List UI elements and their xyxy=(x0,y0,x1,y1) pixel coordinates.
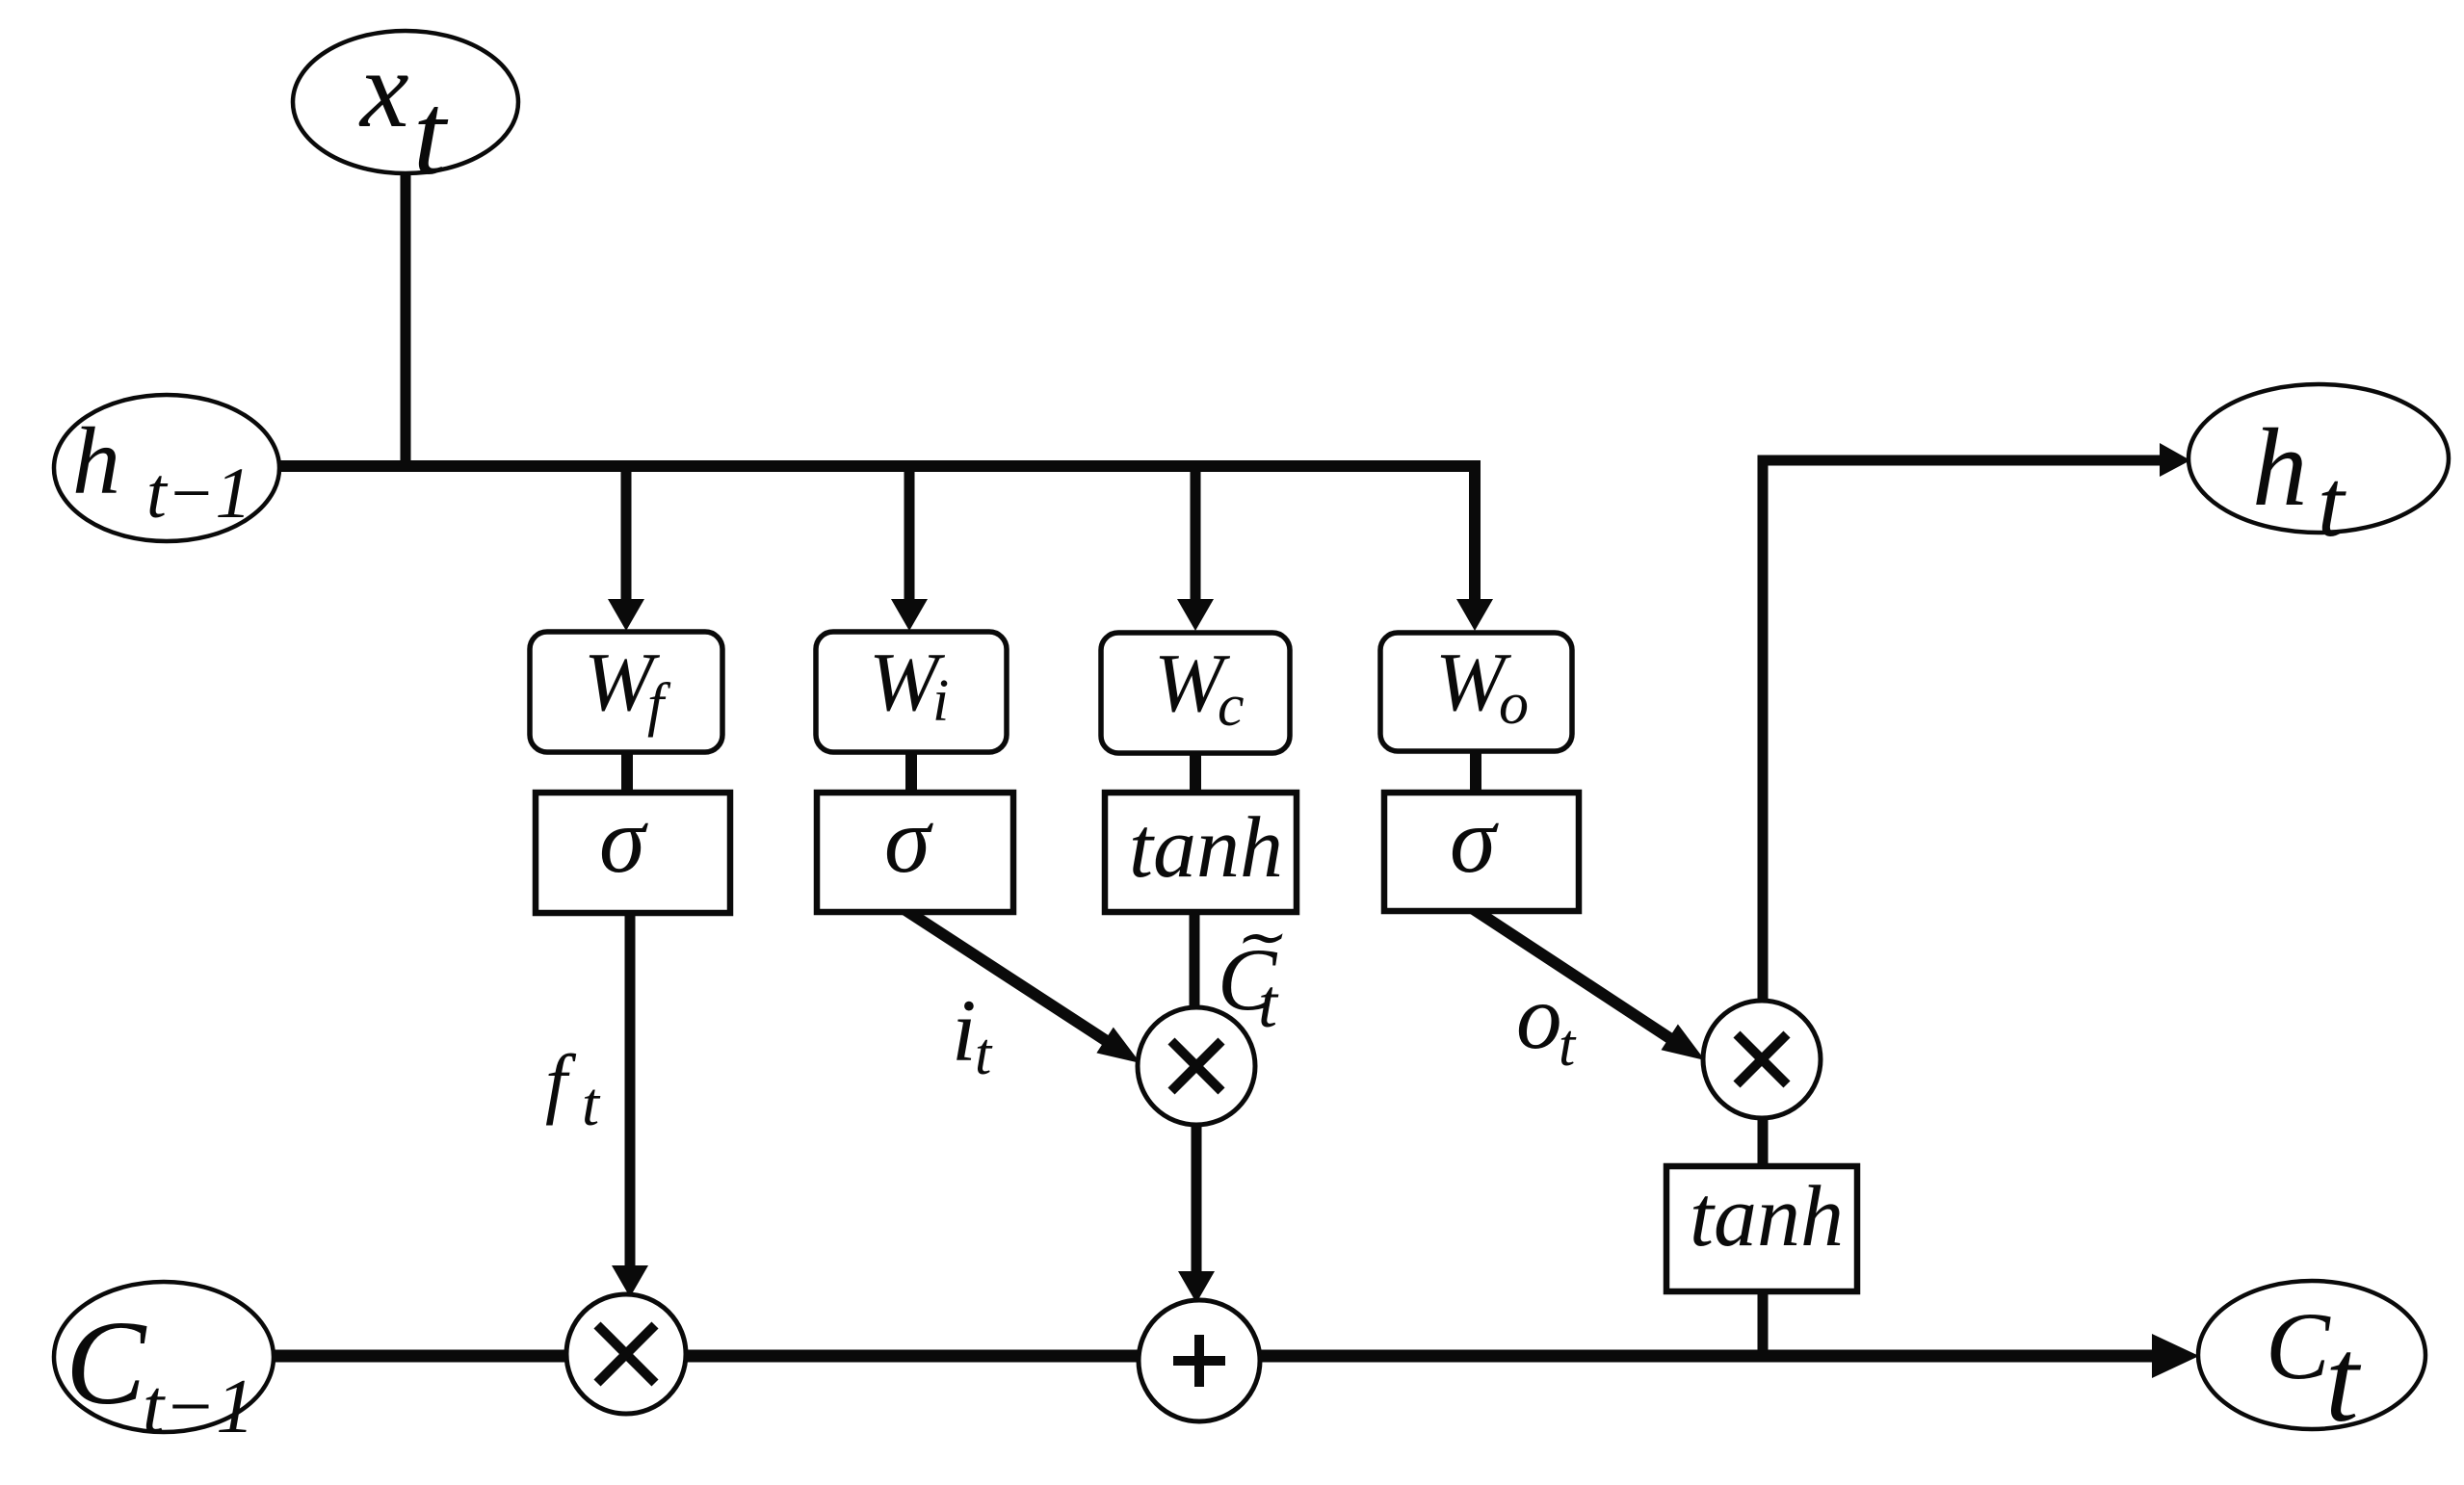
arrowhead f_t into X1 xyxy=(612,1265,648,1297)
op circle plus (cell state add) xyxy=(1139,1300,1260,1421)
arrowhead i_t into X2 xyxy=(1096,1028,1140,1063)
svg-text:σ: σ xyxy=(1450,789,1499,892)
svg-text:σ: σ xyxy=(599,789,648,892)
wire: i_t diagonal sigma2 to X2 xyxy=(905,910,1113,1045)
svg-text:σ: σ xyxy=(884,789,933,892)
svg-text:t: t xyxy=(2318,450,2346,557)
wire: right corner from h_t line down to X3 xyxy=(1763,460,2162,1006)
svg-text:t−1: t−1 xyxy=(143,1365,254,1449)
svg-text:o: o xyxy=(1516,966,1562,1068)
svg-text:C: C xyxy=(66,1297,147,1430)
svg-text:t: t xyxy=(1258,965,1279,1042)
arrowhead o_t into X3 xyxy=(1662,1025,1706,1061)
wire: branch down to W_i xyxy=(904,466,915,599)
svg-text:x: x xyxy=(358,28,409,150)
node h_t-1 xyxy=(54,395,279,541)
wire: X3 down to tanh2 xyxy=(1758,1115,1769,1171)
svg-text:o: o xyxy=(1499,671,1529,737)
arrowhead into W_f xyxy=(608,599,644,631)
wire: stub W_f to sigma1 xyxy=(621,749,633,795)
wire: branch down to W_f xyxy=(621,466,632,599)
box W_i xyxy=(816,632,1007,752)
wire: C~_t line tanh1 down into X2 xyxy=(1190,909,1200,1021)
op circle X3 (output gate multiply) xyxy=(1703,1001,1821,1118)
node C_t xyxy=(2198,1281,2425,1447)
svg-text:i: i xyxy=(952,981,977,1080)
svg-text:h: h xyxy=(2252,406,2308,529)
svg-text:c: c xyxy=(1218,673,1245,739)
box sigma2 xyxy=(817,789,1013,912)
arrowhead into C_t xyxy=(2152,1334,2199,1378)
wire: stub W_i to sigma2 xyxy=(905,749,917,795)
op circle X2 (input gate multiply) xyxy=(1138,1007,1255,1125)
arrowhead into W_o xyxy=(1456,599,1493,631)
label f_t xyxy=(545,1038,601,1139)
box tanh2 xyxy=(1666,1166,1857,1291)
node h_t xyxy=(2189,384,2449,557)
svg-text:t: t xyxy=(2325,1315,2362,1447)
label o_t xyxy=(1516,966,1577,1079)
wire: o_t diagonal sigma3 to X3 xyxy=(1472,908,1677,1043)
box W_f xyxy=(530,632,722,752)
arrowhead into W_c xyxy=(1177,599,1214,631)
wire: branch down to W_c xyxy=(1191,466,1201,599)
svg-text:tanh: tanh xyxy=(1690,1169,1844,1264)
wire: X2 down to plus xyxy=(1192,1121,1202,1273)
label C~_t xyxy=(1218,905,1283,1042)
box sigma1 xyxy=(536,789,730,913)
svg-text:C: C xyxy=(2266,1292,2331,1399)
wire: x_t stem down to trunk xyxy=(401,171,411,472)
svg-text:tanh: tanh xyxy=(1129,800,1283,896)
label i_t xyxy=(952,981,993,1087)
svg-text:i: i xyxy=(932,668,949,734)
svg-text:t: t xyxy=(975,1022,993,1087)
box W_o xyxy=(1380,633,1572,751)
node x_t xyxy=(293,28,518,199)
wire: f_t line sigma1 down to X1 xyxy=(625,910,636,1267)
op circle X1 (forget gate multiply) xyxy=(566,1294,686,1414)
svg-text:t−1: t−1 xyxy=(146,454,251,534)
wire: stub W_c to tanh1 xyxy=(1190,749,1201,795)
svg-text:∼: ∼ xyxy=(1233,905,1283,971)
box tanh1 xyxy=(1105,793,1297,912)
arrowhead into plus xyxy=(1178,1271,1215,1303)
node C_t-1 xyxy=(54,1282,274,1449)
box W_c xyxy=(1101,633,1290,753)
box sigma3 xyxy=(1384,789,1579,911)
wire: C line from C_t-1 to C_t xyxy=(272,1350,2156,1363)
svg-text:t: t xyxy=(1559,1013,1577,1079)
svg-text:t: t xyxy=(413,69,449,199)
wire: tanh2 down to C line xyxy=(1758,1289,1769,1360)
arrowhead into h_t xyxy=(2160,443,2190,477)
arrowhead into W_i xyxy=(891,599,928,631)
wire: main trunk from h_t-1 with corner down to W_o xyxy=(277,466,1475,599)
wire: stub W_o to sigma3 xyxy=(1470,749,1481,795)
svg-text:t: t xyxy=(582,1070,601,1139)
svg-text:h: h xyxy=(72,407,120,514)
